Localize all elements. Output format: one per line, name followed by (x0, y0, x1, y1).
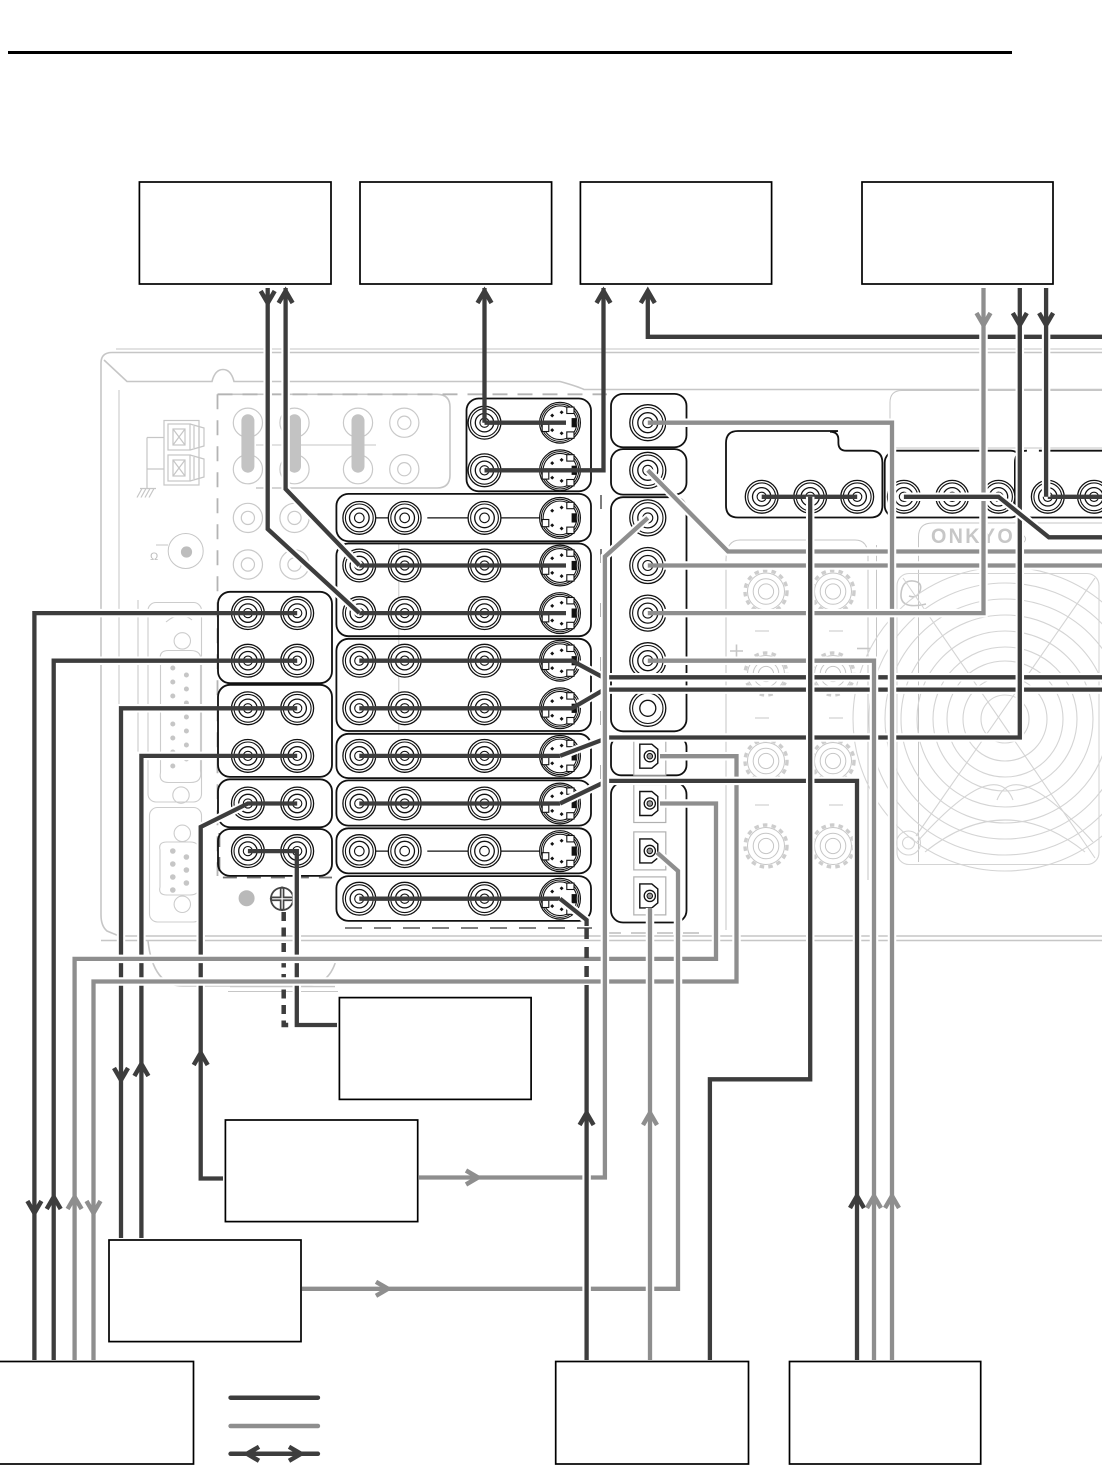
arrow down from box4 dark2 (1039, 313, 1053, 325)
wire: audio row F to bottom-left box (54, 661, 214, 1360)
component video column RCAs rows 1-7 (630, 405, 666, 441)
multichannel group 1 with stepped top (726, 431, 882, 518)
wire: audio row G to mid-left box (121, 708, 214, 1238)
wire: S-video row I to bottom-right box (560, 781, 857, 1360)
box B7 middle (109, 1240, 301, 1342)
multichannel group 2 (885, 451, 1023, 518)
FM coax jack faded (168, 534, 203, 569)
arrow down from box4 gray (977, 313, 991, 325)
RCA jacks left 2-col block (232, 597, 265, 630)
digital optical box 1 (611, 737, 687, 775)
wire: component row2 diagonal out to right edge (648, 470, 1102, 551)
legend gray line (231, 1424, 318, 1429)
foot left (148, 941, 337, 986)
wire: audio row E to bottom-left box (34, 613, 214, 1360)
video group row C (336, 494, 591, 541)
arrow up on wire F (47, 1197, 61, 1209)
component column box row 1 (611, 394, 687, 447)
video group row H (336, 734, 591, 778)
analog audio 2-col group row I (218, 779, 332, 827)
arrow down from box4 dark1 (1013, 313, 1027, 325)
box4 top (862, 182, 1053, 284)
legend bidirectional arrow (231, 1452, 318, 1457)
wire: video row K link (359, 897, 560, 901)
video group row K (336, 876, 591, 921)
chassis outer outline (101, 353, 1102, 937)
arrow down on wire E (27, 1201, 41, 1213)
legend dark line (231, 1395, 318, 1400)
wire: ground screw dashed lead to box B5 (284, 912, 294, 1025)
component column box row 2 (611, 449, 687, 495)
faded separator line inside video area (398, 543, 400, 731)
arrow up into box1 (279, 291, 293, 303)
arrow up on wire H (134, 1064, 148, 1076)
arrow up on optical4 wire (643, 1113, 657, 1125)
arrow down into panel from box1 (261, 291, 275, 303)
wire: component row4 out to right edge (664, 561, 1102, 570)
faded right block edge (890, 391, 1102, 449)
ground screw (271, 888, 293, 910)
analog audio 2-col group rows E-F (218, 592, 332, 683)
gray dot (239, 890, 255, 906)
wire: video row F out to right edge (578, 664, 1102, 677)
arrow down on wire G (114, 1068, 128, 1080)
box B5 middle (339, 998, 531, 1100)
AC curly cord symbol (901, 581, 926, 606)
svg-text:ONKYO: ONKYO (931, 524, 1015, 548)
video group row J (336, 828, 591, 873)
multichannel group 3 (clipped at right edge) (1015, 451, 1102, 518)
wire: video row I link (359, 801, 560, 805)
wire: box4 dark lead to S-video row H (560, 288, 1020, 756)
box3 top (580, 182, 771, 284)
box bottom-right (790, 1362, 981, 1465)
wire: component row1 to bottom-right box (666, 423, 892, 1360)
arrow up on S-video I wire (850, 1196, 864, 1208)
faded amp block corner (919, 523, 1102, 862)
video group rows F-G (336, 639, 591, 731)
coax digital RCA row 7 (unconnected) (630, 690, 666, 726)
wire: box B6 gray lead to component row3 (419, 518, 648, 1178)
video rows C-K : RCA x3 + S-video (343, 502, 376, 535)
wire: audio row J down to box B5 (297, 872, 337, 1025)
wire: video row D link (359, 563, 566, 567)
arrow down on optical1 gray (87, 1201, 101, 1213)
arrow up into box3 left (597, 291, 611, 303)
faded capsule jacks row A/B (233, 408, 262, 484)
arrow up on component row6 wire (867, 1196, 881, 1208)
page rule (8, 51, 1012, 54)
DB9 connector faded (150, 808, 202, 923)
video group rows D-E (336, 544, 591, 637)
box bottom-left (0, 1362, 194, 1465)
arrow right on B6 gray wire (466, 1171, 478, 1185)
box1 top (139, 182, 331, 284)
optical connectors (634, 737, 666, 775)
wire: box2 lead to monitor RCA (482, 288, 486, 423)
arrow right on B7 gray wire (376, 1282, 388, 1296)
wire: optical4 to bottom-middle box (646, 908, 655, 1360)
wire: S-video row K to bottom-middle box (560, 899, 587, 926)
wire: box B7 gray lead to optical3 (302, 853, 678, 1289)
gears: two columns four rows (745, 571, 787, 613)
wire: audio row I to box B6 (201, 806, 243, 1179)
wire: monitor row A link (485, 421, 567, 425)
monitor out RCA + S-video rows A,B (468, 406, 501, 439)
component column tall box rows 3-7 (611, 497, 687, 731)
arrow up on wire I (194, 1053, 208, 1065)
wire: audio row H to mid-left box (141, 756, 214, 1238)
wire: box3 right lead out to right edge (648, 290, 1102, 337)
antenna terminal block (137, 421, 204, 498)
thin link line row C (unconnected) (359, 517, 566, 519)
box B6 middle (225, 1120, 417, 1222)
wire: box4 gray lead to component row5 (664, 288, 984, 613)
video group row I (336, 780, 591, 825)
multichannel RCAs (745, 480, 778, 513)
chassis inner left verticals (118, 390, 120, 925)
wire: component row6 to bottom-right box (664, 661, 874, 1360)
analog audio 2-col group row J (zone out) (218, 829, 332, 876)
arrow up into box3 right (641, 291, 655, 303)
arrow up into box2 (478, 291, 492, 303)
fan assembly faded (853, 567, 1102, 871)
arrow up on S-video K wire (580, 1113, 594, 1125)
monitor out group rows A-B (467, 399, 592, 492)
wire: box1 left lead to video row E (268, 288, 360, 613)
chassis inner top edge with handle bump (104, 360, 1102, 390)
box bottom-middle (556, 1362, 749, 1465)
wire: multichannel group1 link (762, 495, 858, 499)
wire: video row H link (359, 754, 560, 758)
speaker terminal block faded (726, 540, 868, 880)
arrow up on optical2 gray (68, 1197, 82, 1209)
wire: multichannel group3 out (1048, 495, 1102, 499)
faded jack field rounded rect (218, 394, 451, 488)
wire: video row E link (359, 611, 566, 615)
svg-text:Ω: Ω (150, 551, 158, 563)
thin link line row J (unconnected) (359, 850, 566, 852)
wire: video row G out to right edge (578, 690, 1102, 705)
faded phono rings rows C/D (233, 503, 262, 532)
wire: multichannel group2 link + diagonal out (904, 497, 1102, 538)
wire: box3 left lead to S-video row B (485, 288, 604, 470)
arrow up on component row1 wire (885, 1196, 899, 1208)
analog audio 2-col group rows G-H (218, 685, 332, 777)
DB15 connector faded (148, 603, 202, 804)
digital optical tall box 2-4 (611, 782, 687, 922)
wire: optical1 long gray loop to bottom-left (94, 756, 737, 1360)
wire: multichannel group1-2 to bottom-middle box (710, 497, 810, 1360)
wire: box1 right lead to video row D (286, 288, 360, 566)
bottom chassis lines (101, 940, 1102, 942)
wire: box4 dark lead to multichannel group3 (1042, 288, 1051, 497)
wire: optical2 long gray loop to bottom-left (75, 804, 716, 1361)
box2 top (360, 182, 552, 284)
